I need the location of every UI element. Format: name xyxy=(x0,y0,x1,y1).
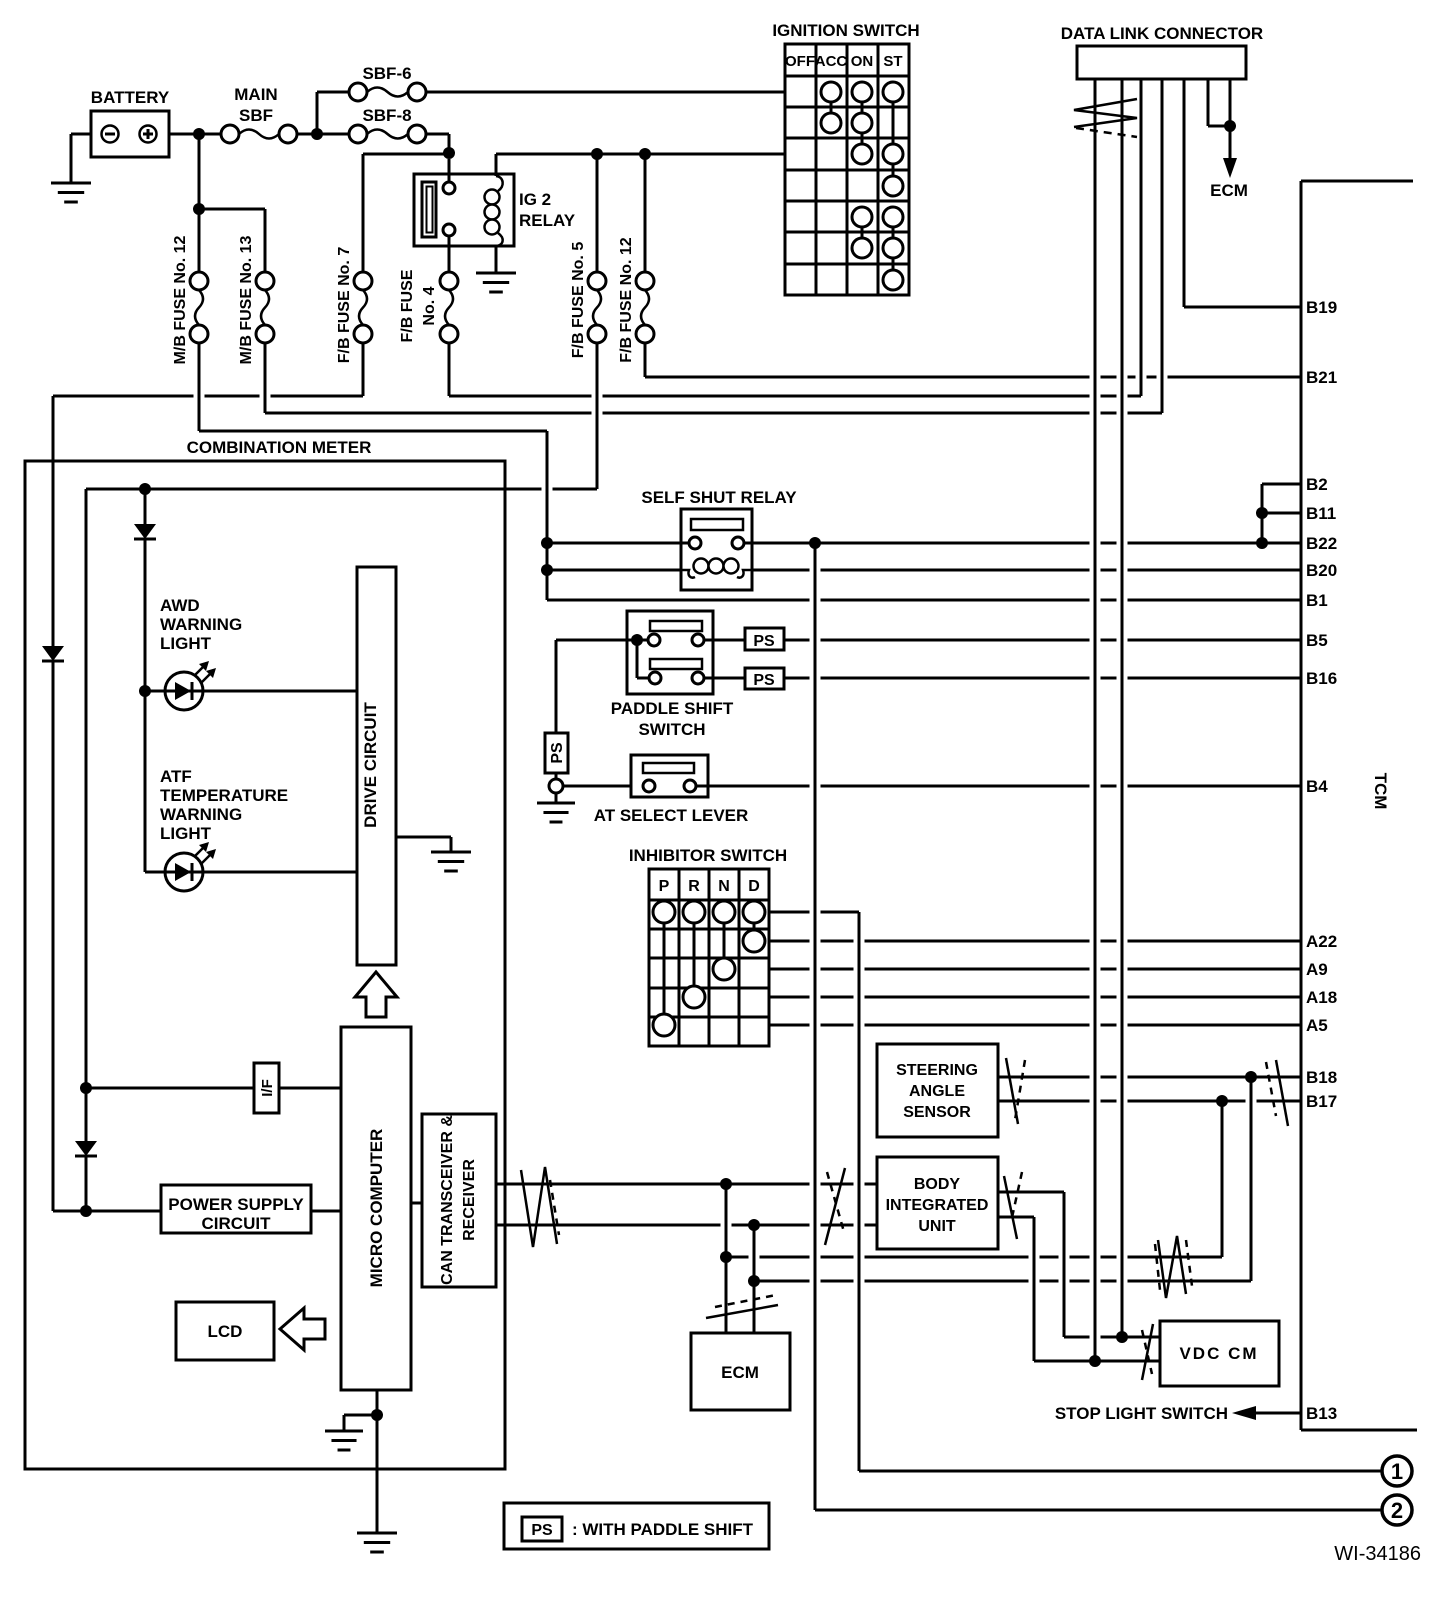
twisted pair CAN bus xyxy=(1155,1236,1192,1298)
node CAN L bus join xyxy=(748,1275,760,1287)
fuse F/B FUSE No. 5 xyxy=(570,242,606,359)
svg-text:SWITCH: SWITCH xyxy=(638,720,705,739)
node AWD led tap xyxy=(139,685,151,697)
svg-text:POWER SUPPLY: POWER SUPPLY xyxy=(168,1195,304,1214)
wire inhibitor to TCM A5 xyxy=(769,1024,1301,1027)
twisted pair body unit output xyxy=(1004,1172,1022,1239)
connector PS ground xyxy=(545,733,568,773)
LCD box xyxy=(176,1302,274,1360)
svg-text:B17: B17 xyxy=(1306,1092,1337,1111)
wire inhibitor to TCM A9 xyxy=(769,968,1301,971)
twisted pair sensor xyxy=(1006,1058,1025,1124)
svg-text:INTEGRATED: INTEGRATED xyxy=(886,1197,989,1214)
wire F/B fuse 7 to combination meter xyxy=(53,343,363,396)
node F/B fuse 5 tap xyxy=(591,148,603,160)
wire paddle row1 feed xyxy=(556,639,648,642)
wire M/B fuse No.13 feed xyxy=(199,209,265,272)
diode D3 xyxy=(75,1088,97,1211)
switch IGNITION SWITCH xyxy=(772,21,919,295)
node B22 vertical tap xyxy=(809,537,821,549)
wire AWD led to drive circuit xyxy=(203,690,357,693)
wire connector 1 link xyxy=(859,1470,1382,1473)
svg-text:BATTERY: BATTERY xyxy=(91,88,170,107)
node DLC ECM junction xyxy=(1224,120,1236,132)
svg-text:B20: B20 xyxy=(1306,561,1337,580)
wire meter to TCM B1 xyxy=(547,599,1301,602)
svg-text:SBF-6: SBF-6 xyxy=(362,64,411,83)
node SBF-8 junction xyxy=(443,147,455,159)
twisted pair before body integrated unit xyxy=(825,1168,845,1245)
wire inhibitor to TCM A22 xyxy=(769,940,1301,943)
ECU BODY INTEGRATED UNIT xyxy=(877,1157,998,1249)
wire ECM CAN H drop xyxy=(725,1184,728,1333)
node F/B fuse 12 tap xyxy=(639,148,651,160)
ECU TCM outline xyxy=(1301,181,1417,1430)
wire self shut coil to TCM B20 xyxy=(547,569,1301,572)
power supply circuit box xyxy=(161,1185,311,1233)
svg-text:CAN TRANSCEIVER &: CAN TRANSCEIVER & xyxy=(439,1115,456,1285)
wire F/B fuse No.5 feed xyxy=(596,154,599,272)
svg-text:ON: ON xyxy=(851,53,874,70)
svg-text:A22: A22 xyxy=(1306,932,1337,951)
wire power supply line xyxy=(86,1210,341,1213)
LED ATF temperature warning light xyxy=(160,767,288,891)
svg-text:F/B FUSE: F/B FUSE xyxy=(399,269,416,342)
svg-text:OFF: OFF xyxy=(785,53,815,70)
diode D2 xyxy=(42,646,64,661)
wire ignition coil line xyxy=(496,153,785,156)
wire DLC pin3 xyxy=(1140,79,1143,396)
svg-text:PS: PS xyxy=(753,633,775,650)
svg-text:R: R xyxy=(688,878,700,895)
svg-text:SBF-8: SBF-8 xyxy=(362,106,411,125)
svg-text:BODY: BODY xyxy=(914,1176,961,1193)
svg-text:AWD: AWD xyxy=(160,596,200,615)
wire DLC to TCM B19 xyxy=(1184,79,1301,307)
svg-text:STOP LIGHT SWITCH: STOP LIGHT SWITCH xyxy=(1055,1404,1228,1423)
svg-text:IG 2: IG 2 xyxy=(519,190,551,209)
ground meter internal xyxy=(325,1415,377,1450)
svg-text:VDC CM: VDC CM xyxy=(1179,1344,1258,1363)
wire micro computer ground xyxy=(376,1390,379,1533)
svg-text:DRIVE CIRCUIT: DRIVE CIRCUIT xyxy=(361,702,380,828)
node ground tap xyxy=(371,1409,383,1421)
svg-text:LIGHT: LIGHT xyxy=(160,634,212,653)
LED AWD warning light xyxy=(160,596,242,710)
svg-text:LCD: LCD xyxy=(208,1322,243,1341)
wire CAN L transceiver to body integrated unit xyxy=(496,1224,877,1227)
fuse MAIN SBF xyxy=(221,85,297,143)
diode D1 xyxy=(134,489,156,539)
wire I/F line xyxy=(86,1087,341,1090)
svg-text:SENSOR: SENSOR xyxy=(903,1104,971,1121)
fuse SBF-8 xyxy=(349,106,426,143)
svg-text:IGNITION SWITCH: IGNITION SWITCH xyxy=(772,21,919,40)
node B17 tap xyxy=(1216,1095,1228,1107)
svg-text:B13: B13 xyxy=(1306,1404,1337,1423)
connector PS row2 xyxy=(704,668,784,689)
svg-text:PADDLE SHIFT: PADDLE SHIFT xyxy=(611,699,734,718)
svg-text:ATF: ATF xyxy=(160,767,192,786)
relay SELF SHUT RELAY xyxy=(641,488,797,590)
wire body unit CAN H to VDC xyxy=(998,1192,1160,1337)
wire M/B fuse 12 to combination meter xyxy=(199,343,547,600)
twisted pair TCM B18 B17 xyxy=(1266,1060,1288,1126)
svg-text:PS: PS xyxy=(753,672,775,689)
node B22 tie xyxy=(1256,537,1268,549)
wire relay contact output xyxy=(448,236,451,272)
wire ATF led to drive circuit xyxy=(203,871,357,874)
wire CAN H bus to B17 tap xyxy=(726,1256,1222,1259)
svg-text:ST: ST xyxy=(883,53,902,70)
switch INHIBITOR SWITCH xyxy=(629,846,787,1046)
wire connector 2 link xyxy=(815,543,1382,1510)
wire DLC CAN high xyxy=(1094,79,1097,1361)
svg-text:M/B FUSE No. 13: M/B FUSE No. 13 xyxy=(238,235,255,364)
node CAN L ECM tap xyxy=(748,1219,760,1231)
fuse F/B FUSE No. 7 xyxy=(336,247,372,364)
svg-text:RELAY: RELAY xyxy=(519,211,576,230)
combination meter box xyxy=(25,438,505,1469)
svg-text:WI-34186: WI-34186 xyxy=(1334,1543,1421,1565)
wire inhibitor common xyxy=(769,912,859,1471)
fuse F/B FUSE No. 4 xyxy=(399,269,458,343)
svg-text:MAIN: MAIN xyxy=(234,85,277,104)
ECU VDC CM xyxy=(1160,1321,1279,1386)
micro computer box xyxy=(341,1027,411,1390)
twisted pair VDC input xyxy=(1142,1324,1153,1380)
wire paddle row2 to TCM B16 xyxy=(784,677,1301,680)
node connector 2 xyxy=(1382,1495,1412,1525)
node warning light feed xyxy=(139,483,151,495)
wire battery positive feed xyxy=(169,134,449,153)
svg-text:WARNING: WARNING xyxy=(160,805,242,824)
connector DATA LINK CONNECTOR xyxy=(1061,24,1263,79)
svg-text:SBF: SBF xyxy=(239,106,273,125)
wire meter supply drop xyxy=(53,396,86,1211)
svg-text:B16: B16 xyxy=(1306,669,1337,688)
twisted pair ECM drop xyxy=(706,1295,778,1318)
svg-text:MICRO COMPUTER: MICRO COMPUTER xyxy=(367,1129,386,1288)
interface I/F box xyxy=(254,1063,279,1113)
wire DLC to ECM xyxy=(1208,79,1230,160)
battery ground xyxy=(51,134,91,202)
svg-text:TEMPERATURE: TEMPERATURE xyxy=(160,786,288,805)
wire CAN L bus to B18 tap xyxy=(754,1280,1251,1283)
svg-text:: WITH PADDLE SHIFT: : WITH PADDLE SHIFT xyxy=(572,1520,754,1539)
battery BATTERY xyxy=(91,88,170,157)
wire F/B fuse 12 to TCM B21 xyxy=(645,343,1301,377)
svg-text:P: P xyxy=(659,878,670,895)
svg-text:LIGHT: LIGHT xyxy=(160,824,212,843)
svg-text:A18: A18 xyxy=(1306,988,1337,1007)
twisted pair DLC xyxy=(1074,99,1137,137)
wire ECM CAN L drop xyxy=(753,1225,756,1333)
wire micro to CAN transceiver xyxy=(411,1202,422,1205)
wire B17 tap to CAN xyxy=(1221,1101,1224,1257)
svg-text:TCM: TCM xyxy=(1371,773,1390,810)
wire F/B fuse 5 to combination meter xyxy=(86,343,597,489)
wire DLC pin4 xyxy=(1161,79,1164,413)
ground relay coil xyxy=(476,273,516,292)
drive circuit box xyxy=(357,567,396,965)
svg-text:ANGLE: ANGLE xyxy=(909,1083,965,1100)
block arrow to drive circuit xyxy=(355,972,397,1017)
node select lever joint xyxy=(549,773,563,793)
ground select lever xyxy=(537,793,575,822)
svg-text:F/B FUSE No. 7: F/B FUSE No. 7 xyxy=(336,247,353,364)
svg-text:M/B FUSE No. 12: M/B FUSE No. 12 xyxy=(172,235,189,364)
svg-text:SELF SHUT RELAY: SELF SHUT RELAY xyxy=(641,488,797,507)
svg-text:DATA LINK CONNECTOR: DATA LINK CONNECTOR xyxy=(1061,24,1263,43)
wire inhibitor to TCM A18 xyxy=(769,996,1301,999)
svg-text:PS: PS xyxy=(531,1522,553,1539)
svg-text:1: 1 xyxy=(1391,1459,1403,1484)
ECU ECM xyxy=(691,1333,790,1410)
svg-text:I/F: I/F xyxy=(259,1079,276,1097)
fuse M/B FUSE No. 13 xyxy=(238,235,274,364)
svg-text:ECM: ECM xyxy=(721,1363,759,1382)
svg-text:No. 4: No. 4 xyxy=(421,286,438,325)
svg-text:ACC: ACC xyxy=(815,53,848,70)
twisted pair transceiver output xyxy=(521,1167,559,1247)
node B11 tie xyxy=(1256,507,1268,519)
wire F/B fuse No.7 feed xyxy=(363,154,449,272)
svg-text:PS: PS xyxy=(549,742,566,764)
wire SBF-6 to ignition switch xyxy=(426,91,785,94)
node connector 1 xyxy=(1382,1456,1412,1486)
arrow to ECM xyxy=(1210,158,1248,200)
svg-text:N: N xyxy=(718,878,730,895)
wire TCM B13 to stop light switch xyxy=(1055,1404,1301,1423)
wire self shut contact to TCM B22 xyxy=(547,542,1301,545)
ground meter main xyxy=(357,1533,397,1552)
wire meter internal supply xyxy=(85,489,88,1088)
svg-text:A9: A9 xyxy=(1306,960,1328,979)
node CAN H ECM tap xyxy=(720,1178,732,1190)
switch AT SELECT LEVER xyxy=(563,755,748,825)
ground drive circuit xyxy=(396,837,471,871)
block arrow to LCD xyxy=(280,1308,325,1350)
node power supply tap xyxy=(80,1205,92,1217)
node B18 tap xyxy=(1245,1071,1257,1083)
svg-text:AT SELECT LEVER: AT SELECT LEVER xyxy=(594,806,749,825)
sensor STEERING ANGLE SENSOR xyxy=(877,1044,998,1137)
node B20 rail left xyxy=(541,564,553,576)
wire warning light cathode rail xyxy=(145,539,165,872)
wire CAN H transceiver to body integrated unit xyxy=(496,1183,877,1186)
fuse SBF-6 xyxy=(349,64,426,101)
wire body unit CAN L to VDC xyxy=(998,1217,1160,1361)
svg-text:B11: B11 xyxy=(1306,504,1336,523)
wire paddle shift ground branch xyxy=(555,640,558,733)
wire select lever to TCM B4 xyxy=(696,785,1301,788)
wire SBF-6 branch xyxy=(317,92,349,134)
svg-text:STEERING: STEERING xyxy=(896,1062,978,1079)
wire sensor to TCM B17 xyxy=(998,1100,1301,1103)
CAN transceiver and receiver box xyxy=(422,1114,496,1287)
node I/F tap xyxy=(80,1082,92,1094)
svg-text:INHIBITOR SWITCH: INHIBITOR SWITCH xyxy=(629,846,787,865)
svg-text:B4: B4 xyxy=(1306,777,1328,796)
node B22 rail left xyxy=(541,537,553,549)
connector PS row1 xyxy=(704,628,784,650)
node paddle shift feed xyxy=(631,634,643,646)
svg-text:B18: B18 xyxy=(1306,1068,1337,1087)
wire M/B fuse 13 to data link connector xyxy=(265,343,1162,413)
node VDC CAN H join xyxy=(1116,1331,1128,1343)
svg-text:F/B FUSE No. 5: F/B FUSE No. 5 xyxy=(570,242,587,359)
wire M/B fuse No.12 feed xyxy=(198,134,201,272)
node VDC CAN L join xyxy=(1089,1355,1101,1367)
wire F/B fuse No.12 feed xyxy=(644,154,647,272)
svg-text:WARNING: WARNING xyxy=(160,615,242,634)
wire B18 tap to CAN xyxy=(1250,1077,1253,1281)
svg-text:A5: A5 xyxy=(1306,1016,1328,1035)
fuse F/B FUSE No. 12 xyxy=(618,237,654,362)
relay IG 2 RELAY xyxy=(414,154,576,273)
wire sensor to TCM B18 xyxy=(998,1076,1301,1079)
svg-text:ECM: ECM xyxy=(1210,181,1248,200)
svg-text:B2: B2 xyxy=(1306,475,1328,494)
wire paddle row1 to TCM B5 xyxy=(784,639,1301,642)
svg-text:B19: B19 xyxy=(1306,298,1337,317)
wire B2 B11 tie xyxy=(1262,484,1301,543)
legend PS with paddle shift xyxy=(504,1503,769,1549)
wire F/B fuse 4 to data link connector xyxy=(449,343,1141,396)
svg-text:CIRCUIT: CIRCUIT xyxy=(202,1214,272,1233)
fuse M/B FUSE No. 12 xyxy=(172,235,208,364)
wire DLC CAN low xyxy=(1121,79,1124,1337)
svg-text:F/B FUSE No. 12: F/B FUSE No. 12 xyxy=(618,237,635,362)
svg-text:B21: B21 xyxy=(1306,368,1337,387)
node SBF junction xyxy=(311,128,323,140)
switch PADDLE SHIFT SWITCH xyxy=(611,611,734,739)
node CAN H bus join xyxy=(720,1251,732,1263)
node battery junction xyxy=(193,128,205,140)
svg-text:D: D xyxy=(748,878,760,895)
svg-text:B22: B22 xyxy=(1306,534,1337,553)
svg-text:RECEIVER: RECEIVER xyxy=(461,1159,478,1241)
svg-text:B5: B5 xyxy=(1306,631,1328,650)
svg-text:COMBINATION METER: COMBINATION METER xyxy=(187,438,372,457)
node M/B fuse 13 branch xyxy=(193,203,205,215)
svg-text:2: 2 xyxy=(1391,1498,1403,1523)
svg-text:B1: B1 xyxy=(1306,591,1328,610)
svg-text:UNIT: UNIT xyxy=(918,1218,956,1235)
